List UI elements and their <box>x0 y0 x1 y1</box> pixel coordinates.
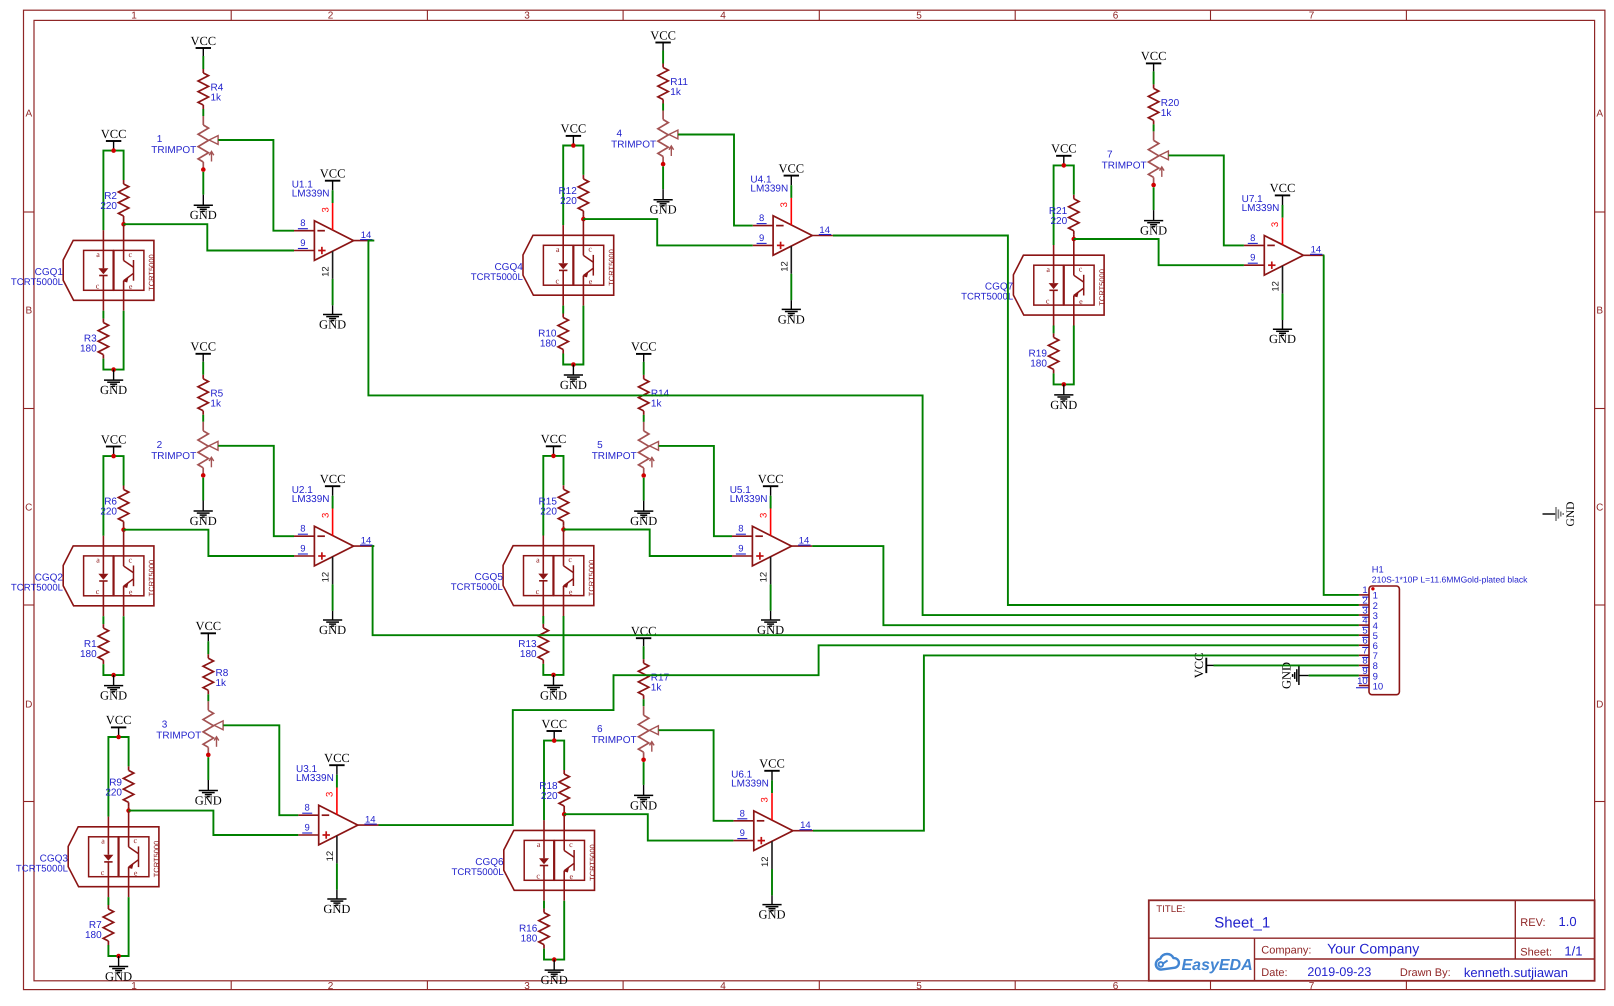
svg-text:VCC: VCC <box>541 432 567 446</box>
svg-text:180: 180 <box>520 649 537 660</box>
wire VCC to R20 <box>1153 71 1155 84</box>
svg-text:Your Company: Your Company <box>1327 940 1419 956</box>
svg-text:TCRT5000: TCRT5000 <box>152 841 161 878</box>
svg-text:210S-1*10P L=11.6MMGold-plated: 210S-1*10P L=11.6MMGold-plated black <box>1372 574 1528 584</box>
ground (U3.1 pin 12) <box>323 890 350 916</box>
svg-text:c: c <box>1079 265 1083 274</box>
junction CGQ5 VCC node <box>551 454 556 459</box>
wire U7.1 output to H1 pin 1 <box>1324 255 1359 595</box>
junction trimpot 2 wiper-low node <box>201 473 206 478</box>
junction CGQ4 ground node <box>571 362 576 367</box>
svg-text:TRIMPOT: TRIMPOT <box>151 145 196 156</box>
ground (trimpot 7) <box>1140 210 1167 238</box>
power VCC (R20 top) <box>1141 49 1167 71</box>
svg-text:7: 7 <box>1107 149 1113 160</box>
power VCC (CGQ6 sensor supply) <box>541 717 567 741</box>
power VCC (CGQ1 sensor supply) <box>101 127 127 151</box>
svg-text:8: 8 <box>300 218 305 229</box>
ground (trimpot 5) <box>630 501 657 528</box>
svg-text:c: c <box>536 587 540 596</box>
svg-text:VCC: VCC <box>631 340 657 354</box>
svg-text:H1: H1 <box>1372 565 1384 575</box>
svg-text:c: c <box>588 245 592 254</box>
wire U7.1 pin 12 to ground <box>1282 294 1284 320</box>
pin 8 (inverting input) of U3.1 <box>298 803 318 816</box>
svg-text:220: 220 <box>540 506 557 517</box>
resistor R18 220 <box>539 770 569 814</box>
svg-text:GND: GND <box>105 970 132 984</box>
optocoupler sensor CGQ4 TCRT5000L <box>471 219 616 306</box>
pin 9 (non-inverting input) of U7.1 <box>1244 253 1264 266</box>
wire trimpot 6 to ground <box>643 762 645 785</box>
svg-text:GND: GND <box>630 514 657 528</box>
power VCC (R17 top) <box>631 624 657 646</box>
wire VCC to CGQ1 anode and R2 <box>103 151 123 231</box>
svg-text:TCRT5000L: TCRT5000L <box>961 292 1014 303</box>
junction trimpot 1 wiper-low node <box>201 167 206 172</box>
svg-text:LM339N: LM339N <box>730 494 768 505</box>
power VCC (CGQ4 sensor supply) <box>561 122 587 146</box>
pin 2 of H1 <box>1359 595 1378 612</box>
svg-text:TRIMPOT: TRIMPOT <box>1102 160 1147 171</box>
op-amp U6.1 LM339N <box>731 770 793 851</box>
svg-text:REV:: REV: <box>1520 917 1545 929</box>
svg-text:1k: 1k <box>670 87 682 98</box>
svg-text:2019-09-23: 2019-09-23 <box>1307 965 1371 979</box>
resistor R6 220 <box>100 486 128 530</box>
svg-text:VCC: VCC <box>650 28 676 42</box>
power VCC (U2.1 pin 3) <box>320 472 346 496</box>
pin 9 (non-inverting input) of U6.1 <box>733 828 753 841</box>
wire VCC to R5 <box>202 362 204 375</box>
wire VCC to U7.1 pin 3 <box>1282 205 1284 218</box>
power VCC (U6.1 pin 3) <box>759 757 785 781</box>
svg-text:LM339N: LM339N <box>292 189 330 200</box>
svg-text:180: 180 <box>521 934 538 945</box>
wire VCC to R11 <box>662 51 664 64</box>
power VCC (U4.1 pin 3) <box>778 161 804 185</box>
svg-text:a: a <box>536 555 540 564</box>
pin 3 (VCC) of U4.1 <box>779 198 791 225</box>
svg-text:c: c <box>129 555 133 564</box>
resistor R12 220 <box>558 175 588 219</box>
svg-text:LM339N: LM339N <box>750 183 788 194</box>
op-amp U5.1 LM339N <box>730 485 792 566</box>
wire R16 and emitter to ground <box>544 901 564 960</box>
trimpot 3 TRIMPOT <box>156 701 223 755</box>
resistor R21 220 <box>1049 195 1079 239</box>
wire U6.1 output to H1 pin 7 <box>813 655 1359 830</box>
svg-text:10: 10 <box>1373 681 1384 692</box>
svg-text:VCC: VCC <box>778 161 804 175</box>
junction CGQ1 VCC node <box>111 148 116 153</box>
svg-text:TCRT5000L: TCRT5000L <box>471 272 524 283</box>
ground (trimpot 2) <box>190 501 217 529</box>
pin 14 (output) of U6.1 <box>793 820 814 831</box>
trimpot 6 TRIMPOT <box>592 706 659 760</box>
wire CGQ3 collector to U3.1 pin 9 <box>129 811 299 835</box>
svg-text:3: 3 <box>320 513 331 518</box>
pin 9 (non-inverting input) of U2.1 <box>294 544 314 557</box>
svg-text:12: 12 <box>779 261 790 272</box>
svg-text:1k: 1k <box>651 398 663 409</box>
svg-text:GND: GND <box>100 689 127 703</box>
pin 3 (VCC) of U6.1 <box>760 793 772 820</box>
svg-text:6: 6 <box>1113 981 1119 992</box>
wire trimpot 1 wiper to U1.1 pin 8 <box>218 140 294 231</box>
power VCC (R14 top) <box>631 340 657 362</box>
svg-text:9: 9 <box>305 823 310 834</box>
wire VCC to CGQ3 anode and R9 <box>108 737 128 817</box>
svg-text:B: B <box>1596 306 1603 317</box>
svg-text:9: 9 <box>759 233 764 244</box>
trimpot 4 TRIMPOT <box>611 111 678 165</box>
svg-text:e: e <box>569 587 573 596</box>
power VCC (R8 top) <box>195 619 221 641</box>
svg-text:12: 12 <box>759 572 770 583</box>
resistor R7 180 <box>85 905 114 945</box>
svg-text:TRIMPOT: TRIMPOT <box>592 735 637 746</box>
svg-text:TCRT5000: TCRT5000 <box>588 844 597 881</box>
wire R4 to trimpot 1 <box>202 109 204 116</box>
pin 8 (inverting input) of U5.1 <box>732 524 752 537</box>
svg-text:GND: GND <box>1269 332 1296 346</box>
svg-text:VCC: VCC <box>1051 142 1077 156</box>
svg-text:5: 5 <box>916 11 922 22</box>
pin 4 of H1 <box>1359 615 1378 632</box>
svg-text:VCC: VCC <box>1270 181 1296 195</box>
svg-text:180: 180 <box>1030 358 1047 369</box>
svg-text:12: 12 <box>760 856 771 867</box>
wire trimpot 7 to ground <box>1153 187 1155 210</box>
EasyEDA logo <box>1156 954 1253 974</box>
svg-text:6: 6 <box>597 724 603 735</box>
pin 3 of H1 <box>1359 605 1378 622</box>
wire CGQ3 cathode to R7 <box>107 897 109 905</box>
optocoupler sensor CGQ7 TCRT5000L <box>961 239 1106 326</box>
svg-text:8: 8 <box>759 213 764 224</box>
pin 12 (GND) of U2.1 <box>321 557 333 585</box>
pin 3 (VCC) of U1.1 <box>320 203 332 230</box>
wire R3 and emitter to ground <box>103 311 123 370</box>
wire U5.1 output to H1 pin 4 <box>812 546 1359 625</box>
trimpot 2 TRIMPOT <box>151 422 218 476</box>
svg-text:c: c <box>1046 296 1050 305</box>
wire U4.1 pin 12 to ground <box>790 274 792 300</box>
wire CGQ4 cathode to R10 <box>562 306 564 314</box>
svg-text:12: 12 <box>1271 281 1282 292</box>
svg-text:GND: GND <box>190 514 217 528</box>
svg-text:GND: GND <box>1565 502 1577 527</box>
pin 12 (GND) of U1.1 <box>321 251 333 279</box>
pin 9 of H1 <box>1359 666 1378 683</box>
power VCC (R5 top) <box>190 340 216 362</box>
svg-text:a: a <box>101 836 105 845</box>
svg-text:Drawn By:: Drawn By: <box>1400 967 1451 979</box>
svg-text:a: a <box>537 840 541 849</box>
svg-text:6: 6 <box>1113 11 1119 22</box>
wire trimpot 5 wiper to U5.1 pin 8 <box>659 446 732 536</box>
svg-text:VCC: VCC <box>324 751 350 765</box>
svg-text:VCC: VCC <box>190 340 216 354</box>
wire CGQ5 cathode to R13 <box>542 616 544 624</box>
resistor R19 180 <box>1029 333 1059 373</box>
ground (U5.1 pin 12) <box>757 611 784 637</box>
svg-text:GND: GND <box>100 383 127 397</box>
svg-text:9: 9 <box>300 238 305 249</box>
svg-text:220: 220 <box>560 196 577 207</box>
svg-text:Sheet_1: Sheet_1 <box>1214 915 1270 932</box>
svg-text:GND: GND <box>560 378 587 392</box>
wire CGQ4 collector to U4.1 pin 9 <box>583 219 752 245</box>
svg-text:VCC: VCC <box>195 619 221 633</box>
ground (trimpot 1) <box>190 195 217 223</box>
svg-text:GND: GND <box>758 908 785 922</box>
svg-text:e: e <box>570 872 574 881</box>
junction CGQ6 VCC node <box>552 738 557 743</box>
pin 8 (inverting input) of U7.1 <box>1244 233 1264 246</box>
svg-text:5: 5 <box>916 981 922 992</box>
svg-text:TRIMPOT: TRIMPOT <box>151 451 196 462</box>
junction CGQ3 ground node <box>116 954 121 959</box>
ground (U2.1 pin 12) <box>319 611 346 637</box>
wire U3.1 pin 12 to ground <box>336 863 338 889</box>
wire R11 to trimpot 4 <box>662 104 664 111</box>
wire CGQ2 cathode to R1 <box>102 616 104 624</box>
svg-text:7: 7 <box>1309 11 1315 22</box>
svg-text:TITLE:: TITLE: <box>1156 904 1185 915</box>
ground (trimpot 3) <box>195 780 222 808</box>
svg-text:e: e <box>589 277 593 286</box>
svg-text:1k: 1k <box>216 678 228 689</box>
connector H1 210S-1*10P <box>1369 565 1528 695</box>
svg-text:TCRT5000L: TCRT5000L <box>16 863 69 874</box>
svg-text:c: c <box>556 276 560 285</box>
junction trimpot 3 wiper-low node <box>206 753 211 758</box>
svg-text:180: 180 <box>540 338 557 349</box>
svg-text:GND: GND <box>540 688 567 702</box>
svg-text:3: 3 <box>320 207 331 212</box>
svg-text:3: 3 <box>779 202 790 207</box>
power VCC (CGQ3 sensor supply) <box>106 713 132 737</box>
svg-text:1k: 1k <box>211 93 223 104</box>
pin 14 (output) of U5.1 <box>792 536 813 547</box>
resistor R16 180 <box>519 909 549 949</box>
junction R15/collector node <box>561 527 566 532</box>
ground (CGQ2 sensor) <box>100 675 127 703</box>
wire R7 and emitter to ground <box>108 897 128 956</box>
resistor R10 180 <box>538 314 568 354</box>
svg-text:kenneth.sutjiawan: kenneth.sutjiawan <box>1464 965 1568 980</box>
resistor R5 1k <box>198 375 224 415</box>
wire trimpot 6 wiper to U6.1 pin 8 <box>659 730 734 821</box>
svg-text:3: 3 <box>1270 222 1281 227</box>
wire CGQ6 cathode to R16 <box>543 901 545 909</box>
ground (CGQ4 sensor) <box>560 365 587 393</box>
resistor R9 220 <box>105 766 133 810</box>
ground (CGQ3 sensor) <box>105 956 132 984</box>
wire U2.1 pin 12 to ground <box>332 584 334 610</box>
wire trimpot 7 wiper to U7.1 pin 8 <box>1169 155 1244 245</box>
power VCC (U5.1 pin 3) <box>758 472 784 496</box>
svg-text:8: 8 <box>1250 233 1255 244</box>
junction R12/collector node <box>581 217 586 222</box>
svg-text:VCC: VCC <box>561 122 587 136</box>
wire trimpot 3 to ground <box>207 757 209 780</box>
svg-text:c: c <box>96 282 100 291</box>
optocoupler sensor CGQ5 TCRT5000L <box>451 530 596 617</box>
op-amp U1.1 LM339N <box>292 180 354 261</box>
svg-text:3: 3 <box>524 981 530 992</box>
wire trimpot 3 wiper to U3.1 pin 8 <box>223 725 298 815</box>
wire R17 to trimpot 6 <box>643 699 645 706</box>
junction CGQ2 VCC node <box>111 454 116 459</box>
wire VCC to U1.1 pin 3 <box>332 190 334 203</box>
wire U1.1 output to H1 pin 3 <box>368 241 1359 615</box>
wire VCC to CGQ7 anode and R21 <box>1054 165 1074 245</box>
svg-text:e: e <box>1079 297 1083 306</box>
svg-text:220: 220 <box>100 201 117 212</box>
svg-text:D: D <box>1596 700 1603 711</box>
junction trimpot 6 wiper-low node <box>641 758 646 763</box>
power VCC (R11 top) <box>650 28 676 50</box>
svg-text:9: 9 <box>300 544 305 555</box>
optocoupler sensor CGQ6 TCRT5000L <box>452 814 597 901</box>
wire R19 and emitter to ground <box>1054 326 1074 385</box>
ground (CGQ7 sensor) <box>1050 384 1077 412</box>
svg-text:TCRT5000L: TCRT5000L <box>11 277 64 288</box>
svg-text:e: e <box>129 282 133 291</box>
wire R10 and emitter to ground <box>563 306 583 365</box>
svg-text:VCC: VCC <box>1141 49 1167 63</box>
wire VCC to R8 <box>207 641 209 654</box>
wire trimpot 2 wiper to U2.1 pin 8 <box>218 446 294 536</box>
junction R21/collector node <box>1072 237 1077 242</box>
svg-text:Company:: Company: <box>1261 944 1311 956</box>
junction trimpot 4 wiper-low node <box>661 162 666 167</box>
svg-text:TCRT5000: TCRT5000 <box>607 249 616 286</box>
svg-text:TCRT5000L: TCRT5000L <box>452 867 505 878</box>
svg-text:Sheet:: Sheet: <box>1520 947 1552 959</box>
junction trimpot 7 wiper-low node <box>1151 183 1156 188</box>
svg-text:1k: 1k <box>210 398 222 409</box>
svg-text:c: c <box>134 836 138 845</box>
svg-text:3: 3 <box>758 513 769 518</box>
wire VCC to U2.1 pin 3 <box>332 496 334 509</box>
ground (floating port, right edge) <box>1543 502 1577 527</box>
svg-text:C: C <box>25 503 32 514</box>
svg-text:3: 3 <box>325 792 336 797</box>
junction CGQ2 ground node <box>111 673 116 678</box>
svg-text:9: 9 <box>1250 253 1255 264</box>
pin 9 (non-inverting input) of U3.1 <box>298 823 318 836</box>
pin 3 (VCC) of U3.1 <box>325 788 337 815</box>
pin 1 of H1 <box>1359 585 1378 602</box>
svg-text:3: 3 <box>760 797 771 802</box>
wire U2.1 output to H1 pin 5 <box>373 546 1359 635</box>
svg-text:VCC: VCC <box>101 432 127 446</box>
resistor R15 220 <box>539 485 569 529</box>
power VCC (U7.1 pin 3) <box>1270 181 1296 205</box>
wire CGQ1 cathode to R3 <box>102 311 104 319</box>
svg-text:180: 180 <box>80 649 97 660</box>
ground (U6.1 pin 12) <box>758 895 785 921</box>
trimpot 7 TRIMPOT <box>1102 131 1169 185</box>
wire trimpot 4 wiper to U4.1 pin 8 <box>678 135 753 226</box>
svg-text:LM339N: LM339N <box>296 773 334 784</box>
svg-text:c: c <box>569 840 573 849</box>
wire CGQ1 collector to U1.1 pin 9 <box>124 224 294 250</box>
pin 12 (GND) of U3.1 <box>325 836 337 864</box>
svg-text:2: 2 <box>157 440 163 451</box>
wire VCC to R14 <box>643 362 645 375</box>
wire trimpot 1 to ground <box>202 172 204 195</box>
svg-text:VCC: VCC <box>320 167 346 181</box>
wire VCC to U4.1 pin 3 <box>790 185 792 198</box>
svg-text:220: 220 <box>100 507 117 518</box>
junction R6/collector node <box>121 527 126 532</box>
pin 12 (GND) of U4.1 <box>779 246 791 274</box>
optocoupler sensor CGQ1 TCRT5000L <box>11 224 156 311</box>
svg-text:c: c <box>568 555 572 564</box>
svg-text:GND: GND <box>195 794 222 808</box>
svg-text:D: D <box>25 700 32 711</box>
svg-text:1k: 1k <box>1161 108 1173 119</box>
wire R1 and emitter to ground <box>103 616 123 675</box>
wire R20 to trimpot 7 <box>1153 124 1155 131</box>
svg-text:a: a <box>556 245 560 254</box>
ground (CGQ6 sensor) <box>541 960 568 988</box>
pin 8 (inverting input) of U6.1 <box>733 808 753 821</box>
svg-text:1/1: 1/1 <box>1564 944 1582 959</box>
svg-text:c: c <box>129 250 133 259</box>
svg-text:12: 12 <box>321 266 332 277</box>
pin 8 of H1 <box>1359 656 1378 673</box>
pin 12 (GND) of U5.1 <box>759 557 771 585</box>
power VCC (CGQ5 sensor supply) <box>541 432 567 456</box>
svg-text:A: A <box>25 109 32 120</box>
op-amp U7.1 LM339N <box>1242 194 1304 275</box>
wire VCC to R17 <box>643 646 645 659</box>
pin 12 (GND) of U6.1 <box>760 841 772 869</box>
trimpot 1 TRIMPOT <box>151 116 218 170</box>
resistor R2 220 <box>100 180 128 224</box>
wire VCC to U3.1 pin 3 <box>336 775 338 788</box>
svg-text:180: 180 <box>85 930 102 941</box>
junction R18/collector node <box>562 812 567 817</box>
junction CGQ5 ground node <box>551 673 556 678</box>
power VCC (CGQ7 sensor supply) <box>1051 142 1077 166</box>
power VCC (header pin 8) <box>1192 653 1214 679</box>
svg-text:GND: GND <box>1140 224 1167 238</box>
wire VCC to R4 <box>202 56 204 69</box>
svg-text:7: 7 <box>1309 981 1315 992</box>
wire trimpot 2 to ground <box>202 478 204 501</box>
svg-text:4: 4 <box>720 11 726 22</box>
svg-text:9: 9 <box>738 544 743 555</box>
junction R2/collector node <box>121 222 126 227</box>
wire VCC to CGQ5 anode and R15 <box>543 456 563 536</box>
wire CGQ6 collector to U6.1 pin 9 <box>564 814 733 840</box>
title block <box>1149 900 1595 981</box>
wire R5 to trimpot 2 <box>202 415 204 422</box>
resistor R13 180 <box>518 624 548 664</box>
svg-text:3: 3 <box>162 719 168 730</box>
resistor R3 180 <box>80 319 109 359</box>
junction trimpot 5 wiper-low node <box>641 473 646 478</box>
ground (CGQ1 sensor) <box>100 370 127 398</box>
power VCC (U1.1 pin 3) <box>320 167 346 191</box>
